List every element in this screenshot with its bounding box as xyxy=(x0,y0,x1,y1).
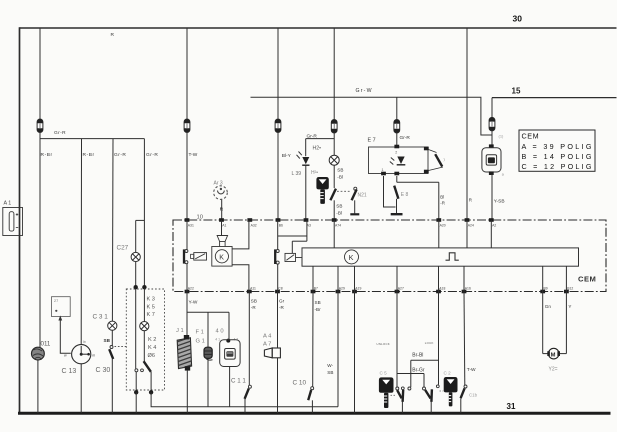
svg-text:Y: Y xyxy=(568,304,571,309)
relay unit dashed box K2-K7 xyxy=(126,289,164,390)
svg-text:1: 1 xyxy=(382,168,384,172)
svg-text:Gr-R: Gr-R xyxy=(400,135,411,141)
svg-text:A3: A3 xyxy=(307,223,311,227)
wire relay1 to A32 xyxy=(232,220,249,249)
svg-text:B9: B9 xyxy=(544,287,548,291)
wire Br-Bl xyxy=(411,359,439,361)
wire Gr-R to lamp H2x xyxy=(333,133,335,156)
wire to ground bus xyxy=(135,392,137,413)
wire Gr-W from A32 to ignition fuse xyxy=(251,97,493,135)
legend box CEM poles xyxy=(519,130,595,171)
wire lock to ground bus xyxy=(430,402,432,414)
wire to lower dot right xyxy=(150,372,152,392)
control module CEM dash-dot box xyxy=(173,220,606,292)
svg-text:B12: B12 xyxy=(567,287,573,291)
svg-text:SB: SB xyxy=(315,300,321,305)
wire C11 to ground bus xyxy=(244,399,246,413)
svg-text:A18: A18 xyxy=(439,287,445,291)
wire horn to ground bus xyxy=(277,358,279,413)
wire Gr-W drop to fuse 5 xyxy=(396,97,398,119)
contact C16 xyxy=(464,385,467,388)
junction dots at relay box top xyxy=(134,285,138,289)
svg-text:Br-Bl: Br-Bl xyxy=(412,353,423,359)
svg-text:E 7: E 7 xyxy=(368,138,376,144)
wire CEM top pin to bar xyxy=(333,220,335,248)
horn symbol on relay 1 xyxy=(217,236,228,242)
wire A19 to ground bus xyxy=(354,292,356,414)
resistor element J1 xyxy=(174,335,194,375)
switch blade C10 xyxy=(308,390,311,400)
pin A11 CEM bottom xyxy=(247,290,252,294)
pin A20 CEM top xyxy=(436,218,441,222)
svg-text:R-Br: R-Br xyxy=(83,152,95,158)
lamp C27 xyxy=(131,252,140,261)
svg-text:B = 14 POLIG: B = 14 POLIG xyxy=(522,152,592,161)
wire left frame feed from 30 bus xyxy=(19,27,21,413)
svg-text:A1: A1 xyxy=(222,223,226,227)
wire E7 pin1 to ground xyxy=(384,176,396,207)
svg-text:UNLOCK: UNLOCK xyxy=(377,342,390,346)
svg-text:31: 31 xyxy=(507,402,516,411)
pin E7 right-bottom xyxy=(424,170,429,174)
wire pin to horn xyxy=(221,220,223,236)
pin 3 E7 bottom-right xyxy=(394,172,399,176)
svg-text:w: w xyxy=(64,354,67,358)
wire Bl-Y to CEM B6 xyxy=(277,132,279,220)
fuse F-6 xyxy=(489,117,495,130)
svg-text:Gr-R: Gr-R xyxy=(54,130,66,136)
sensor G1 capsule xyxy=(204,347,213,360)
pin C8 CEM bottom xyxy=(275,290,280,294)
pivot unlock xyxy=(401,387,404,390)
wire C30 to ground bus xyxy=(111,359,113,413)
LED inside E7 xyxy=(397,157,404,165)
svg-text:A 1: A 1 xyxy=(4,201,12,207)
svg-text:SB: SB xyxy=(251,299,257,304)
wire 30 bus (top) xyxy=(20,27,617,29)
switch blade N21 left xyxy=(330,189,336,201)
wire Gr-R line3 down to C31 xyxy=(111,139,114,321)
svg-text:H²•: H²• xyxy=(311,170,318,176)
svg-text:A2: A2 xyxy=(492,223,496,227)
wire LED to CEM A3 xyxy=(305,166,307,220)
wire relay1 to A11 bottom xyxy=(232,265,249,292)
svg-text:A19: A19 xyxy=(355,287,361,291)
svg-text:30: 30 xyxy=(513,14,523,24)
svg-text:Gr-R: Gr-R xyxy=(307,134,318,140)
svg-text:15: 15 xyxy=(512,87,521,96)
fuse F-3 xyxy=(275,119,281,133)
key lock switch xyxy=(444,377,458,406)
motor Y2 xyxy=(543,353,549,355)
wire branch Gr-R to LED xyxy=(306,138,335,140)
wire to ground stub xyxy=(354,200,356,213)
ground bar N21 xyxy=(350,213,359,215)
wire W-SB from A29 xyxy=(337,292,339,407)
pin B9 CEM bottom xyxy=(540,290,545,294)
wire R to CEM A24 xyxy=(466,28,468,220)
wire 15 feed (right) xyxy=(492,97,617,99)
wire CEM top pin to bar xyxy=(438,220,440,248)
pin A18 CEM bottom xyxy=(436,290,441,294)
wire inside box left xyxy=(135,289,137,369)
pulse symbol xyxy=(446,253,459,260)
switch blade relay2 xyxy=(274,249,276,264)
switch blade C16 xyxy=(461,388,465,398)
pin B12 CEM bottom xyxy=(564,290,569,294)
wire to lower dot left xyxy=(135,372,137,392)
sensor O11 (oil pressure) xyxy=(32,347,45,360)
wire fuse to switch unit xyxy=(491,130,493,147)
svg-text:-R: -R xyxy=(279,305,285,310)
wire Gr-R from C8 to horn xyxy=(277,292,279,349)
pin A31 CEM top xyxy=(185,218,190,222)
ground bar E8 xyxy=(391,213,403,215)
svg-text:10: 10 xyxy=(197,215,203,221)
svg-text:A32: A32 xyxy=(251,223,257,227)
wire T-W to CEM A11 xyxy=(186,132,188,220)
mech link key left xyxy=(391,394,396,396)
svg-text:K: K xyxy=(219,254,224,261)
relay K internal 2 xyxy=(277,220,279,249)
pin A2 CEM top xyxy=(489,218,494,222)
svg-text:C 5: C 5 xyxy=(380,371,388,376)
svg-text:B7: B7 xyxy=(314,287,318,291)
svg-text:A22: A22 xyxy=(188,287,194,291)
wire arrow from C13 w to box 27 xyxy=(60,318,71,354)
svg-text:A27: A27 xyxy=(398,287,404,291)
svg-text:K: K xyxy=(349,253,354,262)
key ignition (N21 left) xyxy=(316,177,328,204)
pin A22 CEM bottom xyxy=(185,290,190,294)
ignition switch unit xyxy=(482,148,501,172)
wire lamp to switch N21 xyxy=(333,165,335,188)
pin A27 CEM bottom xyxy=(395,290,400,294)
wire Br-Bl drop xyxy=(410,360,412,387)
pin A3 CEM top xyxy=(304,218,309,222)
svg-text:F 1: F 1 xyxy=(196,330,204,336)
sensor unit E7 box xyxy=(369,147,429,174)
wire Gn from B9 to motor xyxy=(542,292,544,354)
svg-text:A29: A29 xyxy=(339,287,345,291)
svg-text:G 1: G 1 xyxy=(196,338,205,344)
pin A16 CEM bottom xyxy=(462,290,467,294)
wire from A18 to lock switch xyxy=(438,292,440,385)
svg-text:Gr: Gr xyxy=(279,299,285,304)
svg-text:Bl-Y: Bl-Y xyxy=(282,153,292,159)
wire bar to CEM bottom pin xyxy=(463,266,465,291)
switch in relay box xyxy=(135,369,138,372)
svg-text:4 1: 4 1 xyxy=(215,337,220,341)
svg-text:Bl: Bl xyxy=(440,194,444,199)
wire CEM top pin to bar xyxy=(466,220,468,248)
wire 15 to fuse 6 xyxy=(491,98,493,118)
connector box 27 xyxy=(52,297,71,317)
wire bar to CEM bottom pin xyxy=(312,266,314,291)
svg-text:K 3: K 3 xyxy=(147,297,155,303)
svg-text:A 7: A 7 xyxy=(263,341,271,347)
svg-text:C1b: C1b xyxy=(469,393,478,398)
key unlock switch xyxy=(379,377,394,408)
relay K internal 1 xyxy=(186,220,188,249)
switch blade E8 xyxy=(394,186,398,199)
wire CEM top pin to bar xyxy=(490,220,492,248)
wire C13 to ground bus xyxy=(80,364,82,413)
switch blade lock b xyxy=(430,389,433,402)
pin A29 CEM bottom xyxy=(336,290,341,294)
lamp K indicator xyxy=(140,322,149,331)
wire 31 ground bus (bottom) xyxy=(18,412,611,415)
svg-text:27: 27 xyxy=(54,299,58,303)
switch blade C30 xyxy=(109,349,113,359)
svg-text:Gr-R: Gr-R xyxy=(146,152,158,158)
ignition distributor C13 xyxy=(72,345,91,364)
wire bar to CEM bottom pin xyxy=(354,266,356,291)
wire from A27 to unlock switch xyxy=(396,292,398,388)
pin B6 CEM top xyxy=(276,218,281,222)
svg-text:E 8: E 8 xyxy=(401,192,409,198)
wire lamp to switch xyxy=(143,331,145,361)
svg-text:2: 2 xyxy=(395,151,397,155)
wire sub-bus along bottom xyxy=(151,392,338,407)
K circle in bar xyxy=(345,250,359,264)
svg-text:A24: A24 xyxy=(468,223,474,227)
wire Gr-R to E7 xyxy=(396,133,398,148)
svg-text:(1): (1) xyxy=(499,133,505,138)
wire from 30 bus to fuse xyxy=(186,28,188,119)
svg-text:Gn: Gn xyxy=(545,304,552,309)
svg-text:-Bl: -Bl xyxy=(337,175,343,180)
wire unit 40 to sub-bus xyxy=(229,367,231,407)
mech link N21 xyxy=(337,190,351,192)
switch blade unlock a xyxy=(397,390,401,398)
svg-text:R: R xyxy=(111,32,115,38)
wire Ar3 to CEM xyxy=(221,200,223,220)
svg-text:Y-W: Y-W xyxy=(189,300,198,306)
pin 1 E7 bottom-left xyxy=(381,172,386,176)
svg-text:C8: C8 xyxy=(278,287,282,291)
wire to CEM A74 xyxy=(333,200,335,220)
wire C27 to relay box xyxy=(135,262,137,288)
wire E8 to ground xyxy=(396,199,398,214)
svg-text:R-Br: R-Br xyxy=(41,152,53,158)
svg-text:a: a xyxy=(502,173,504,177)
pin E7 right-top xyxy=(424,147,429,151)
svg-text:M: M xyxy=(551,352,556,358)
wire to coil2 xyxy=(292,240,307,242)
svg-text:C 10: C 10 xyxy=(293,380,307,387)
svg-text:A74: A74 xyxy=(335,223,341,227)
svg-text:K 2: K 2 xyxy=(148,337,156,343)
svg-text:J 1: J 1 xyxy=(176,328,184,334)
svg-text:T-W: T-W xyxy=(467,367,476,373)
svg-text:C 2: C 2 xyxy=(444,371,452,376)
wire C16 to ground bus xyxy=(460,398,462,413)
wire Y from B12 to motor xyxy=(565,292,567,354)
wire C10 to ground bus xyxy=(311,400,313,413)
svg-text:N21: N21 xyxy=(358,192,367,198)
wire E7 pin3 down xyxy=(396,176,398,182)
svg-text:A 4: A 4 xyxy=(263,334,272,340)
relay coil 2 xyxy=(285,253,296,261)
fuse F-2 line T-W xyxy=(184,119,190,133)
pin A24 CEM top xyxy=(465,218,470,222)
contact unlock 1 xyxy=(396,387,399,390)
wire to C27 lamp xyxy=(135,220,137,252)
svg-text:C 13: C 13 xyxy=(62,368,77,375)
wire G1 to sub-bus xyxy=(207,358,209,406)
svg-text:A = 39 POLIG: A = 39 POLIG xyxy=(522,142,592,151)
wire branch to C27 xyxy=(136,219,145,221)
wire O11 to ground bus xyxy=(37,360,39,413)
svg-text:-R: -R xyxy=(251,305,257,310)
svg-text:SB: SB xyxy=(327,370,333,375)
wire unlock to ground bus xyxy=(401,402,403,414)
svg-text:B6: B6 xyxy=(279,223,283,227)
wire branch Gr-R distribution xyxy=(40,138,144,140)
pin A32 CEM top xyxy=(247,218,252,222)
svg-text:T-W: T-W xyxy=(189,152,198,158)
switch C11 contact xyxy=(248,385,251,388)
svg-text:Br-Gr: Br-Gr xyxy=(412,367,425,373)
wire from 30 bus to fuse 4 xyxy=(333,28,335,120)
lamp H2 warning xyxy=(329,155,339,165)
switch blade C11 xyxy=(245,389,249,399)
wire R-Br line2 down to C13 xyxy=(80,139,82,345)
svg-text:b: b xyxy=(84,340,86,344)
svg-text:Y2=: Y2= xyxy=(549,367,558,373)
svg-text:SB: SB xyxy=(337,168,343,173)
svg-text:Y-SB: Y-SB xyxy=(494,199,505,205)
svg-text:A20: A20 xyxy=(440,223,446,227)
svg-text:Gr-W: Gr-W xyxy=(356,88,373,94)
svg-text:C 3 1: C 3 1 xyxy=(93,314,109,321)
svg-text:R: R xyxy=(469,198,472,203)
wire T-W from A16 xyxy=(463,292,466,386)
wire Y-SB to CEM A2 xyxy=(491,174,493,220)
fuse F-1 on line1 xyxy=(37,119,43,133)
switch C10 contact xyxy=(311,387,314,390)
svg-text:K 4: K 4 xyxy=(148,345,156,351)
svg-text:C27: C27 xyxy=(117,244,129,251)
svg-text:SB: SB xyxy=(104,338,111,343)
svg-text:C 30: C 30 xyxy=(96,367,111,374)
svg-text:A16: A16 xyxy=(465,287,471,291)
wire bar to CEM bottom pin xyxy=(396,266,398,291)
relay coil 1 xyxy=(194,253,207,261)
wire R-Br line1 down to O11 xyxy=(39,132,41,347)
svg-text:A31: A31 xyxy=(188,223,194,227)
logic bar inside CEM xyxy=(302,248,579,266)
svg-text:H2•: H2• xyxy=(313,146,322,152)
wire Br-Gr drop xyxy=(423,374,425,388)
switch blade in relay box xyxy=(144,361,151,372)
pin A74 CEM top xyxy=(332,218,337,222)
wire from 30 bus to fuse 3 xyxy=(277,28,279,119)
wire Br-Gr xyxy=(397,373,424,375)
wire C31 to switch C30 xyxy=(111,330,113,345)
svg-text:-R: -R xyxy=(440,200,445,205)
wire Bl-R to CEM A20 xyxy=(438,182,440,220)
switch C30 xyxy=(110,346,113,349)
switch blade E7 right xyxy=(435,154,442,166)
contact unlock 2 xyxy=(408,387,411,390)
wire bar to CEM bottom pin xyxy=(565,266,567,291)
svg-text:W-: W- xyxy=(327,363,333,368)
wire inside box right xyxy=(143,289,145,321)
svg-text:C 1 1: C 1 1 xyxy=(231,378,246,385)
pin switch unit top xyxy=(489,144,494,148)
lamp C31 xyxy=(108,321,117,330)
wire Gr-R line4 down to relay box xyxy=(143,139,145,288)
pin B7 CEM bottom xyxy=(311,290,316,294)
pin 2 E7 top xyxy=(394,145,399,149)
wire to unit 40 xyxy=(228,312,230,340)
mech link key right xyxy=(440,390,444,392)
switch N21 right xyxy=(354,187,357,190)
wire R line1 from 30 bus xyxy=(39,28,41,119)
pin A19 CEM bottom xyxy=(352,290,357,294)
switch blade N21 right xyxy=(352,190,357,201)
wire to Bl-R xyxy=(397,181,439,183)
switch blade unlock b xyxy=(401,390,404,402)
svg-text:Ø6: Ø6 xyxy=(148,353,155,359)
contact lock 2 xyxy=(436,385,439,388)
switch at E7 right xyxy=(429,150,437,153)
LED L39 xyxy=(305,139,307,157)
svg-text:4 0: 4 0 xyxy=(216,328,224,334)
svg-text:-Bl: -Bl xyxy=(336,211,342,216)
fuse F-5 xyxy=(394,119,400,133)
svg-text:SB: SB xyxy=(336,204,342,209)
pin A1 CEM top xyxy=(219,218,224,222)
svg-text:m: m xyxy=(92,353,95,357)
svg-text:Gr-R: Gr-R xyxy=(114,152,126,158)
wire SB-R from A11 to C11 xyxy=(248,292,250,386)
svg-text:L 39: L 39 xyxy=(292,171,302,177)
svg-text:K 5: K 5 xyxy=(147,304,155,310)
svg-text:CEM: CEM xyxy=(522,132,540,141)
fuse F-4 xyxy=(331,119,337,133)
svg-text:011: 011 xyxy=(41,341,51,348)
svg-text:CEM: CEM xyxy=(578,275,596,284)
contact lock 1 xyxy=(423,387,426,390)
svg-text:A11: A11 xyxy=(250,287,256,291)
wire bar to CEM bottom pin xyxy=(337,266,339,291)
wire Y-W from A22 xyxy=(186,292,188,338)
wire J1 to ground bus xyxy=(186,370,188,413)
wire bar to CEM bottom pin xyxy=(542,266,544,291)
switch blade lock a xyxy=(425,390,430,399)
svg-text:LOCK: LOCK xyxy=(425,341,434,345)
wire A3 to switch2 xyxy=(278,235,307,237)
wire to G1 sensor xyxy=(207,312,209,347)
mech link C30 to relay box xyxy=(115,346,127,348)
wire bar to CEM bottom pin xyxy=(438,266,440,291)
wire branch to F1 G1 and 40 xyxy=(187,311,229,313)
relay body 1 xyxy=(212,247,232,267)
svg-text:K 7: K 7 xyxy=(147,312,155,318)
wire SB-Br from B7 to C10 xyxy=(312,292,314,387)
pin switch unit bottom xyxy=(489,171,494,175)
control unit 40 xyxy=(220,340,240,367)
svg-text:-Br: -Br xyxy=(315,307,322,312)
horn A4/A7 xyxy=(264,348,272,358)
switch blade relay1 xyxy=(183,249,185,263)
